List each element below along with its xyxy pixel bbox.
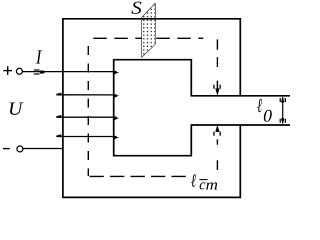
wire to - terminal — [23, 148, 64, 150]
label l of l0 — [257, 99, 262, 112]
dashed mean path, left side — [87, 46, 89, 176]
l0 dimension arrow — [282, 97, 284, 123]
flux arrow into gap (down) — [216, 89, 220, 95]
- terminal sign — [3, 148, 10, 150]
+ terminal circle — [16, 68, 22, 74]
+ terminal sign — [3, 70, 12, 72]
dashed mean path, right side below gap — [216, 139, 218, 170]
label m of lcm — [206, 182, 217, 189]
inner window outline — [114, 60, 192, 156]
coil turn 2 — [56, 94, 116, 96]
coil turn 4 — [56, 136, 116, 138]
label l of lcm — [191, 174, 196, 187]
label S — [132, 2, 142, 14]
label U — [10, 103, 24, 115]
flux arrow out of gap (up) — [216, 126, 220, 132]
air-gap bottom cut line — [191, 124, 291, 126]
- terminal circle — [17, 146, 23, 152]
cross-section parallelogram S — [142, 4, 155, 57]
dashed mean path, top side — [93, 37, 203, 39]
outer core outline — [63, 19, 240, 198]
label I — [36, 50, 42, 63]
coil turn 3 — [56, 116, 116, 118]
label 0 of l0 — [264, 110, 272, 122]
coil turn 1 right arrowhead — [114, 71, 119, 74]
wire from + terminal / coil turn 1 — [22, 71, 116, 73]
label c of lcm — [200, 182, 206, 189]
current arrow I — [34, 69, 40, 70]
overbar of lcm subscript — [199, 179, 207, 181]
dashed mean path, right side above gap — [216, 39, 218, 92]
core top edge over cross-section — [141, 18, 156, 20]
air-gap top cut line — [191, 95, 291, 97]
dashed mean path, bottom side — [90, 175, 189, 177]
